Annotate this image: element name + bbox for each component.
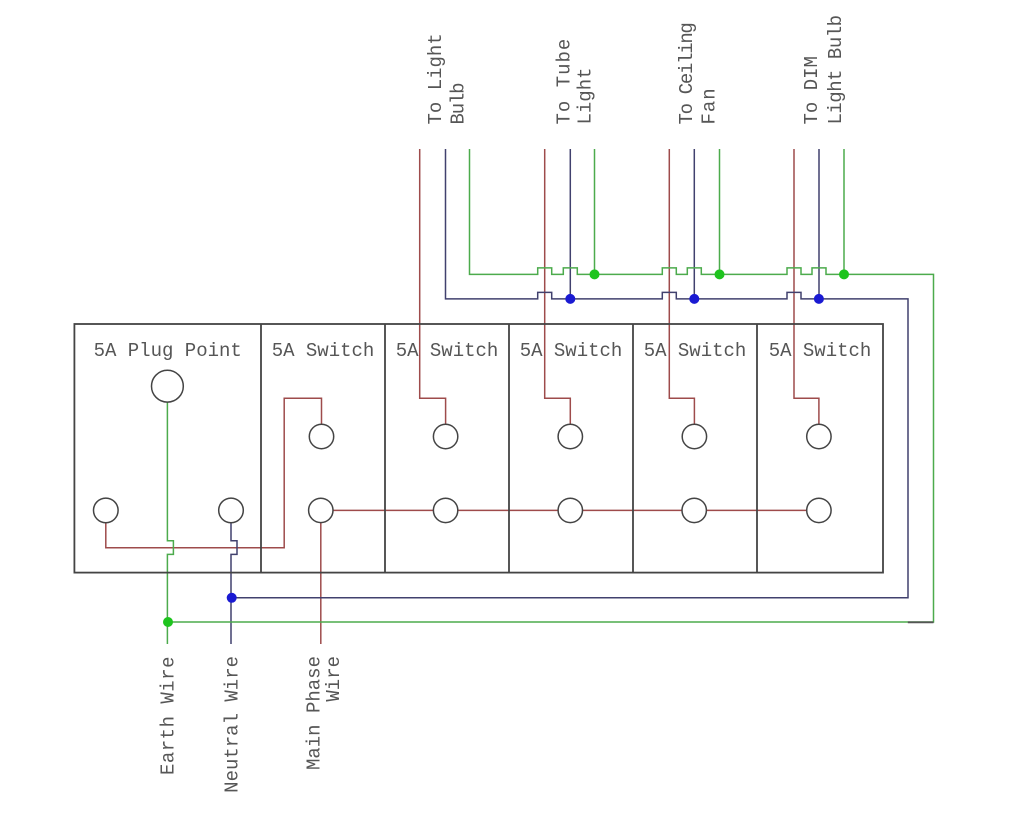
svg-text:5A Switch: 5A Switch [644, 340, 747, 362]
svg-text:Wire: Wire [323, 656, 345, 702]
svg-text:To Ceiling: To Ceiling [676, 23, 698, 124]
divider between S4 and S5 [756, 324, 758, 573]
wire: earth riser 1 plus earth bus with crossover hops and right-side return [168, 149, 934, 622]
svg-text:To Tube: To Tube [553, 38, 575, 125]
svg-text:5A Switch: 5A Switch [769, 340, 872, 362]
wire: earth riser 3 [719, 149, 721, 274]
svg-text:5A Switch: 5A Switch [272, 340, 375, 362]
wire: neutral riser 2 [569, 149, 571, 299]
svg-text:Light: Light [574, 67, 596, 124]
svg-text:To DIM: To DIM [801, 56, 823, 124]
svg-text:Light Bulb: Light Bulb [825, 15, 847, 124]
label: To Tube Light (output 2) [553, 38, 596, 125]
label: To Ceiling Fan (output 3) [676, 23, 720, 124]
label: To Light Bulb (output 1) [425, 33, 469, 124]
divider between S3 and S4 [632, 324, 634, 573]
junction dot: neutral wire bottom junction [227, 593, 237, 603]
wire: neutral riser 1 plus neutral bus with crossover hops and right-side return [232, 149, 908, 598]
wire: red phase from plug-point left terminal up to switch S1 top terminal [106, 398, 322, 547]
wire: earth riser 2 [594, 149, 596, 274]
switch board outline box [74, 324, 883, 573]
wire: earth drop from plug-point top terminal with hop over phase wire [167, 402, 173, 644]
svg-text:5A Plug Point: 5A Plug Point [94, 340, 242, 362]
label: To DIM Light Bulb (output 4) [801, 15, 847, 124]
switch S4 bottom terminal [682, 498, 706, 522]
wire: neutral drop from plug-point right terminal with hop over phase wire [231, 523, 237, 644]
wire: red phase riser to S3 output (To Tube Light) [545, 149, 571, 424]
divider between plug point and S1 [260, 324, 262, 573]
wire: red phase riser to S5 output (To DIM Light Bulb) [794, 149, 819, 424]
switch S1 bottom terminal [309, 498, 333, 522]
junction dot: earth wire bottom junction [163, 617, 173, 627]
wire: neutral riser 3 [693, 149, 695, 299]
divider between S2 and S3 [508, 324, 510, 573]
switch S4 top terminal [682, 424, 706, 448]
switch S2 bottom terminal [433, 498, 457, 522]
plug point neutral terminal (bottom-right circle) [219, 498, 244, 523]
junction dot: earth bus at riser 2 [590, 269, 600, 279]
junction dot: earth bus at riser 3 [715, 269, 725, 279]
svg-text:Neutral Wire: Neutral Wire [222, 656, 244, 793]
wire: red phase bus linking all switch bottom terminals [321, 509, 819, 511]
plug point phase terminal (bottom-left circle) [94, 498, 119, 523]
switch S1 top terminal [309, 424, 333, 448]
junction dot: neutral bus at riser 4 [814, 294, 824, 304]
wire: red phase riser to S2 output (To Light Bulb) [420, 149, 446, 424]
switch S2 top terminal [433, 424, 457, 448]
junction dot: neutral bus at riser 3 [689, 294, 699, 304]
svg-text:5A Switch: 5A Switch [520, 340, 623, 362]
svg-text:Fan: Fan [699, 87, 721, 124]
svg-text:5A Switch: 5A Switch [396, 340, 499, 362]
wire: neutral riser 4 [818, 149, 820, 299]
junction dot: neutral bus at riser 2 [565, 294, 575, 304]
svg-text:Earth Wire: Earth Wire [158, 656, 180, 775]
switch S5 bottom terminal [807, 498, 831, 522]
plug point earth terminal (top circle) [152, 370, 184, 402]
switch S3 bottom terminal [558, 498, 582, 522]
divider between S1 and S2 [384, 324, 386, 573]
wire: red phase riser to S4 output (To Ceiling Fan) [669, 149, 694, 424]
label: Main Phase Wire [304, 656, 346, 770]
wire: earth riser 4 [843, 149, 845, 274]
junction dot: earth bus at riser 4 [839, 269, 849, 279]
wire: main phase feed dropping from switch S1 bottom terminal [320, 510, 322, 644]
switch S3 top terminal [558, 424, 582, 448]
switch S5 top terminal [807, 424, 831, 448]
svg-text:To Light: To Light [425, 33, 447, 124]
wire segment: dark stub at earth return corner [908, 621, 934, 623]
svg-text:Bulb: Bulb [448, 83, 470, 125]
